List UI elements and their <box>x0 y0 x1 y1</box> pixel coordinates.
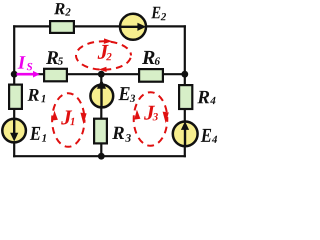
mesh loop J1 arrowhead left (pointing up) <box>52 111 58 121</box>
mesh loop J3 arrowhead left (pointing up) <box>134 110 140 120</box>
wire bottom horizontal <box>13 155 186 157</box>
source E3 circle <box>90 85 113 108</box>
source E1 arrow (pointing down) <box>13 119 15 135</box>
label E1 <box>30 127 41 140</box>
mesh loop J3 arrowhead right (pointing down) <box>163 112 169 124</box>
label E3 <box>118 87 129 100</box>
node junction bottom middle <box>98 153 105 160</box>
source E3 arrow (pointing up, tip above circle) <box>100 82 102 108</box>
mesh loop J3 dashed ellipse <box>134 92 168 146</box>
mesh loop J1 dashed ellipse <box>52 93 84 147</box>
resistor R5 box <box>44 69 67 82</box>
label R2 <box>54 3 65 14</box>
label Is <box>18 56 26 68</box>
resistor R1 box <box>9 85 22 109</box>
label R3 <box>112 127 124 139</box>
node junction middle (mid wire) <box>98 71 105 78</box>
source E2 arrow (pointing right) <box>121 26 138 28</box>
label J2 (red) <box>98 45 109 59</box>
label R6 <box>142 51 155 64</box>
wire left rail upper <box>13 25 15 75</box>
mesh loop J2 arrowhead bottom (pointing left) <box>99 67 107 72</box>
node junction left (mid wire) <box>11 71 18 78</box>
label J3 (red) <box>144 106 155 120</box>
wire middle rail <box>100 74 102 156</box>
label J1 (red) <box>61 111 72 125</box>
source E1 circle <box>2 119 26 143</box>
wire right rail upper <box>184 25 186 75</box>
mesh loop J2 dashed ellipse <box>76 41 131 69</box>
wire right rail lower <box>184 74 186 157</box>
label R1 <box>28 89 39 101</box>
wire top horizontal <box>13 25 186 27</box>
node junction right (mid wire) <box>181 71 188 78</box>
resistor R4 box <box>179 85 192 109</box>
resistor R2 box <box>50 21 74 33</box>
label R4 <box>197 91 209 103</box>
mesh loop J1 arrowhead right (pointing down) <box>80 113 86 125</box>
resistor R3 box <box>94 119 107 144</box>
resistor R6 box <box>139 69 163 82</box>
label E4 <box>201 129 212 142</box>
wire middle horizontal <box>13 73 186 75</box>
source E4 circle <box>173 121 198 146</box>
current source arrow Is (magenta) <box>17 73 35 76</box>
mesh loop J2 arrowhead top (pointing right) <box>104 38 113 44</box>
label E2 <box>151 7 160 18</box>
source E2 circle <box>120 14 146 40</box>
source E4 arrow (pointing up) <box>184 126 186 146</box>
label R5 <box>46 51 58 64</box>
wire left rail lower <box>13 74 15 157</box>
